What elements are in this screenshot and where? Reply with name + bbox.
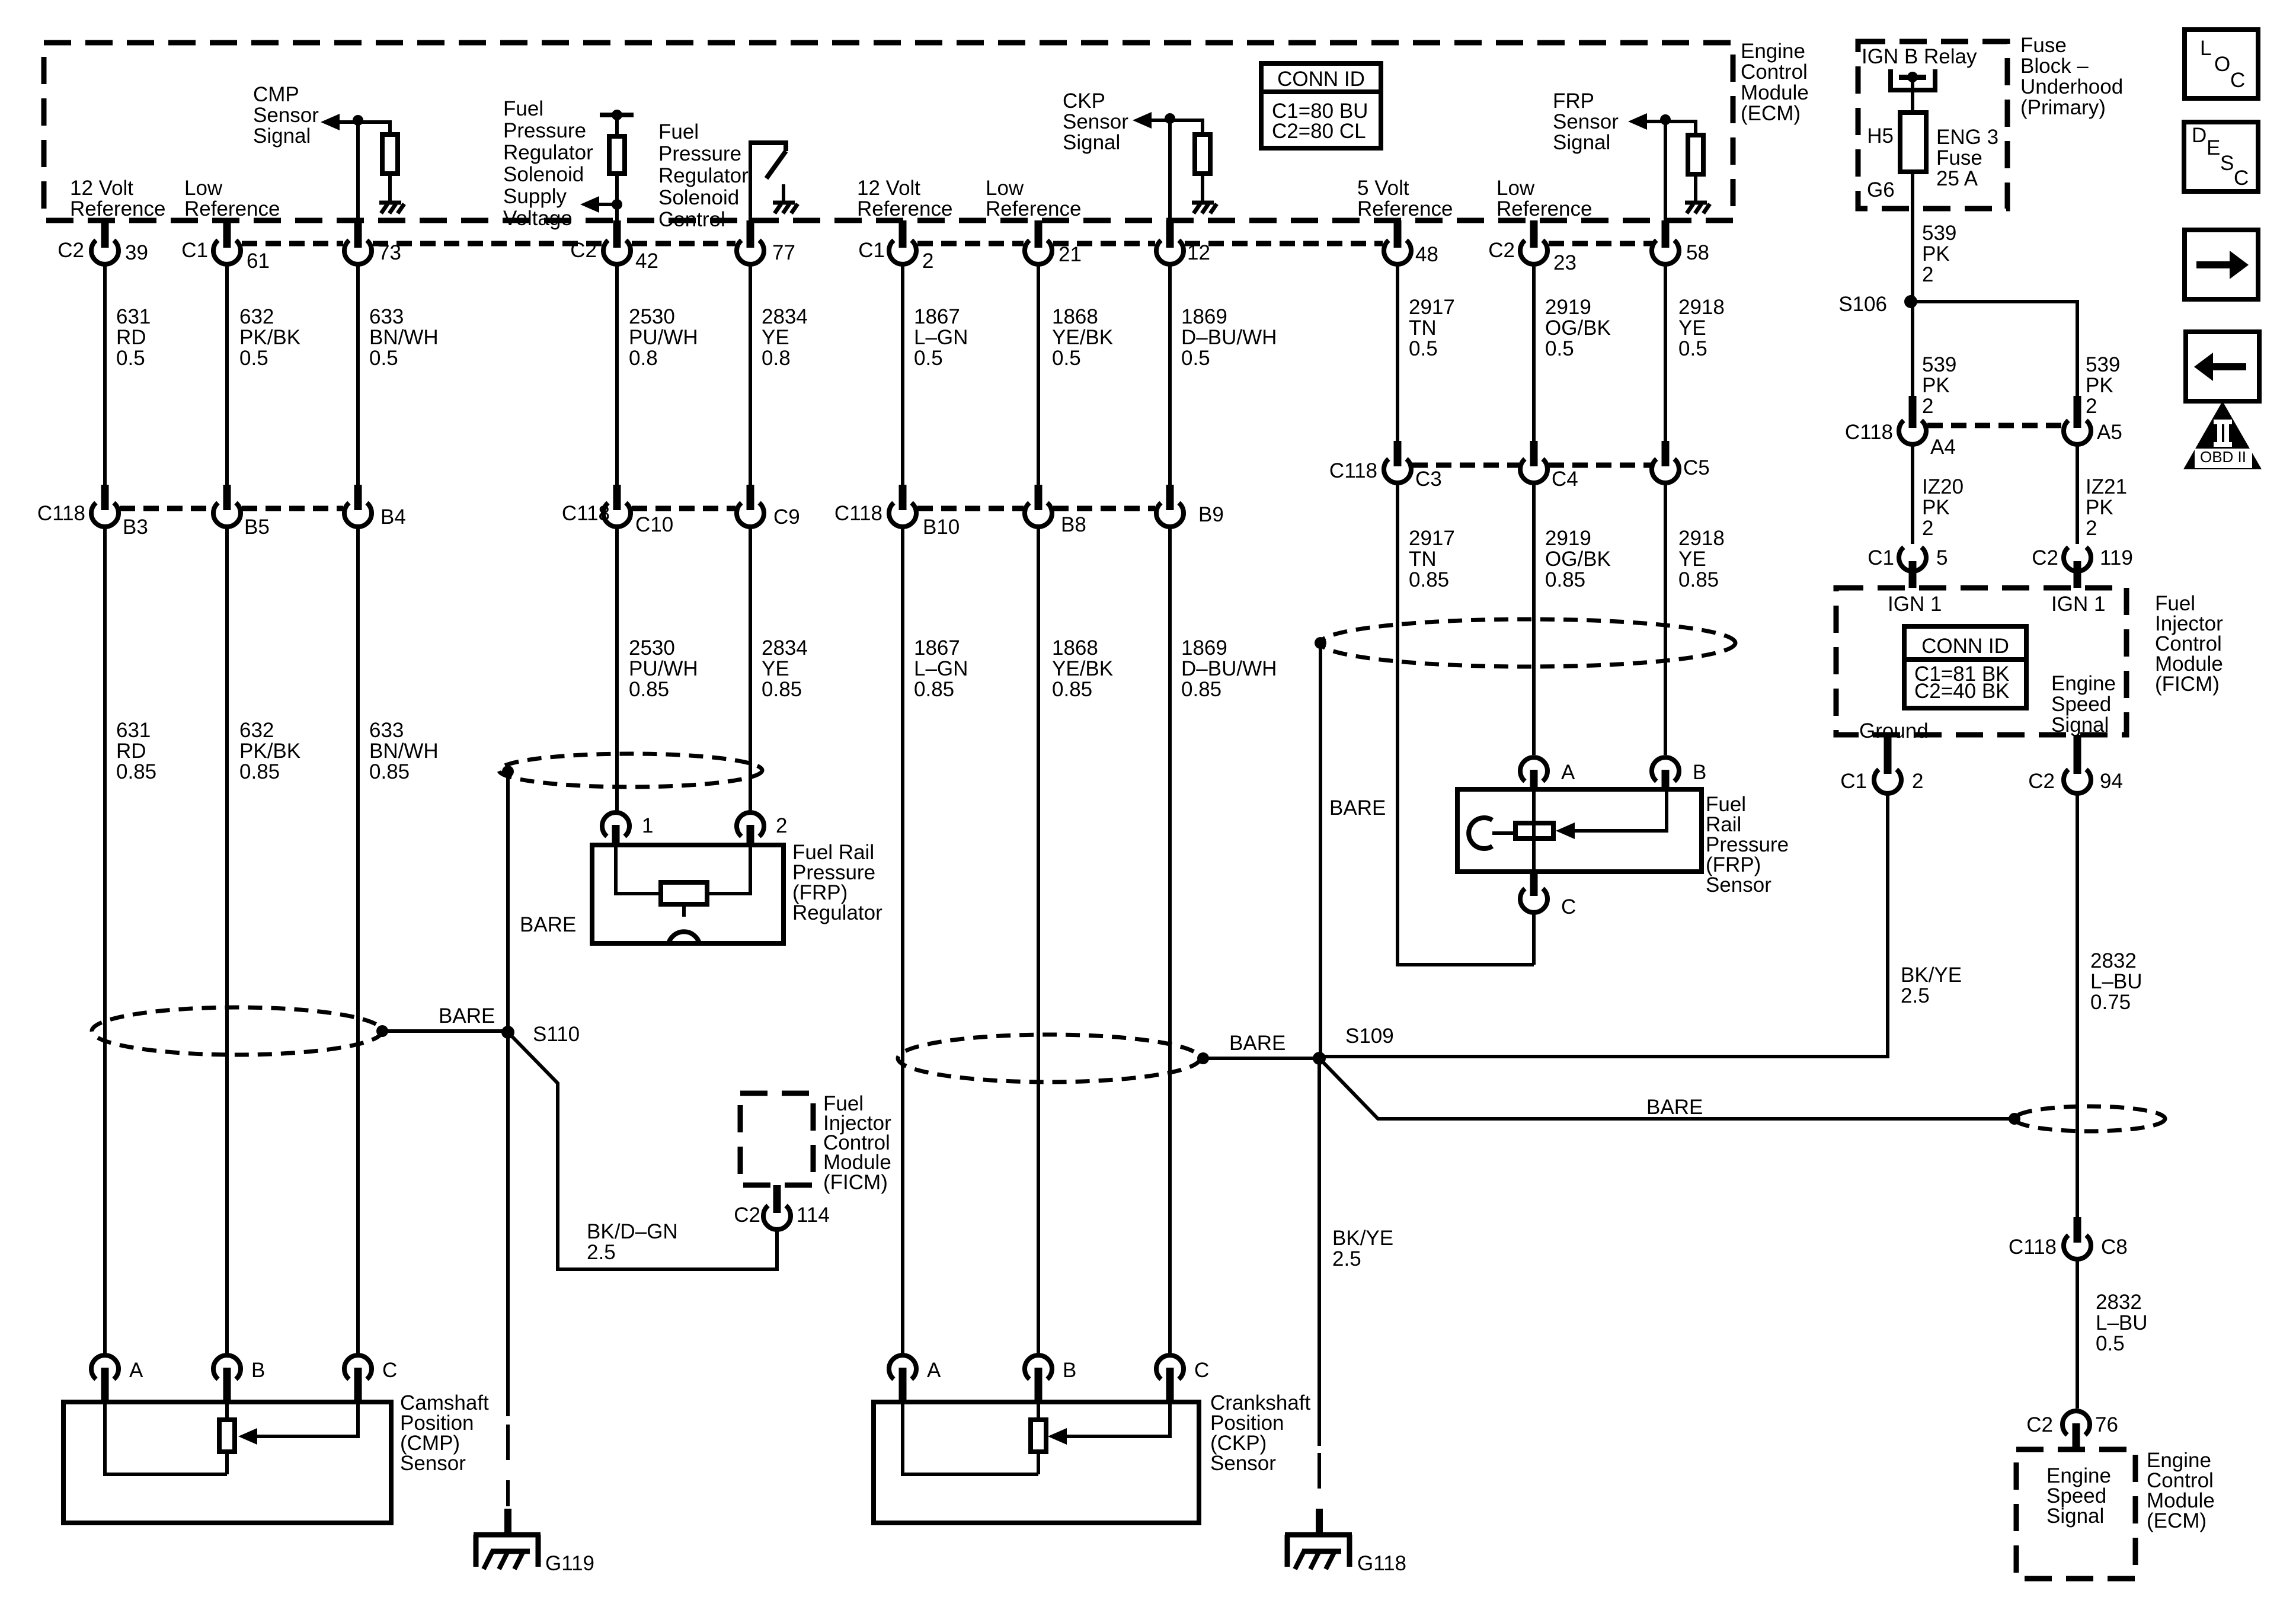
svg-text:CONN ID: CONN ID bbox=[1921, 635, 2009, 658]
svg-text:IGN 1: IGN 1 bbox=[2051, 593, 2105, 616]
svg-text:C118: C118 bbox=[1329, 459, 1377, 482]
svg-text:119: 119 bbox=[2100, 546, 2133, 569]
wire 1869 bbox=[1168, 119, 1172, 485]
svg-text:Low: Low bbox=[1496, 177, 1535, 200]
svg-text:L: L bbox=[2200, 37, 2211, 60]
svg-text:Signal: Signal bbox=[1553, 131, 1610, 154]
svg-text:0.85: 0.85 bbox=[1678, 568, 1719, 591]
svg-text:2918: 2918 bbox=[1678, 527, 1725, 550]
svg-text:0.85: 0.85 bbox=[914, 678, 954, 701]
connector C118 C3 bbox=[1329, 441, 1442, 491]
wire 1868 lower bbox=[1037, 527, 1040, 1355]
svg-text:B10: B10 bbox=[923, 516, 960, 539]
svg-text:2834: 2834 bbox=[762, 636, 808, 660]
svg-text:H5: H5 bbox=[1867, 124, 1894, 148]
svg-text:(FICM): (FICM) bbox=[2155, 673, 2220, 696]
connector C118 C8 bbox=[2009, 1217, 2128, 1259]
wire label 2919 OG/BK 0.85 bbox=[1545, 527, 1611, 591]
svg-text:PK/BK: PK/BK bbox=[239, 326, 300, 349]
wire label 632 PK/BK 0.5 bbox=[239, 305, 300, 370]
node CMP shield drain bbox=[376, 1025, 388, 1037]
svg-text:2530: 2530 bbox=[629, 636, 675, 660]
wire 633 lower bbox=[356, 527, 360, 1355]
svg-text:58: 58 bbox=[1686, 241, 1709, 264]
label BK/YE 2.5 (S109 leg) bbox=[1332, 1227, 1393, 1270]
wire label 2530 PU/WH 0.85 bbox=[629, 636, 698, 701]
label 5 Volt Reference bbox=[1357, 177, 1453, 220]
connector C118 B9 bbox=[1156, 485, 1224, 527]
label 539 PK 2 (upper) bbox=[1922, 222, 1956, 286]
wire regulator pin1 internal bbox=[616, 845, 661, 894]
svg-text:A4: A4 bbox=[1930, 436, 1956, 459]
svg-text:PK: PK bbox=[2086, 374, 2113, 397]
svg-text:YE/BK: YE/BK bbox=[1052, 657, 1113, 680]
svg-text:21: 21 bbox=[1059, 243, 1082, 266]
svg-text:Regulator: Regulator bbox=[658, 164, 749, 187]
svg-text:94: 94 bbox=[2100, 770, 2123, 793]
svg-text:Control: Control bbox=[1741, 60, 1808, 84]
svg-text:Sensor: Sensor bbox=[1210, 1452, 1276, 1475]
CKP internal resistor bbox=[1037, 1402, 1040, 1474]
solenoid coil FRP regulator bbox=[661, 882, 707, 904]
wire FRP sensor A through element bbox=[1532, 789, 1536, 872]
svg-text:YE/BK: YE/BK bbox=[1052, 326, 1113, 349]
svg-text:114: 114 bbox=[797, 1204, 830, 1227]
svg-text:BARE: BARE bbox=[1329, 796, 1386, 820]
wire 2918 upper bbox=[1664, 120, 1667, 441]
svg-text:C: C bbox=[2234, 167, 2249, 190]
wire label 1868 YE/BK 0.85 bbox=[1052, 636, 1113, 701]
label Fuel Rail Pressure (FRP) Sensor bbox=[1706, 793, 1789, 897]
pin 21 bbox=[1025, 220, 1082, 266]
wire S106 down bbox=[1911, 302, 1914, 396]
wire label 632 PK/BK 0.85 bbox=[239, 719, 300, 783]
svg-text:Sensor: Sensor bbox=[1553, 110, 1619, 133]
label Low Reference (CKP) bbox=[986, 177, 1081, 220]
svg-text:BN/WH: BN/WH bbox=[369, 326, 439, 349]
svg-text:2832: 2832 bbox=[2090, 949, 2137, 972]
wire relay to fuse bbox=[1911, 80, 1914, 113]
label 539 PK 2 (left leg) bbox=[1922, 353, 1956, 418]
pin C CMP sensor bbox=[344, 1355, 397, 1403]
connector C118 C5 bbox=[1652, 441, 1710, 483]
svg-text:Solenoid: Solenoid bbox=[658, 186, 739, 209]
label Low Reference (FRP) bbox=[1496, 177, 1592, 220]
svg-text:2: 2 bbox=[1922, 517, 1933, 540]
svg-text:IGN B Relay: IGN B Relay bbox=[1862, 45, 1977, 68]
svg-text:Underhood: Underhood bbox=[2020, 75, 2123, 98]
node FRP shield drain bbox=[1315, 637, 1326, 649]
pin C2-76 ECM bbox=[2026, 1411, 2118, 1451]
svg-text:0.85: 0.85 bbox=[369, 760, 410, 783]
svg-text:RD: RD bbox=[116, 740, 146, 763]
svg-text:C118: C118 bbox=[37, 502, 85, 525]
FRP sensor element bbox=[1515, 823, 1553, 838]
pin 77 bbox=[737, 220, 795, 264]
label 12 Volt Reference (CMP) bbox=[70, 177, 165, 220]
Crankshaft Position (CKP) Sensor box bbox=[874, 1402, 1199, 1523]
CMP internal wire C and arrow bbox=[257, 1402, 358, 1436]
svg-text:0.85: 0.85 bbox=[1545, 568, 1585, 591]
svg-text:0.5: 0.5 bbox=[914, 347, 943, 370]
svg-text:Engine: Engine bbox=[2051, 672, 2116, 695]
shield ellipse 2832 bbox=[2014, 1106, 2165, 1131]
svg-text:48: 48 bbox=[1415, 243, 1438, 266]
svg-text:0.5: 0.5 bbox=[1181, 347, 1210, 370]
svg-text:76: 76 bbox=[2095, 1413, 2118, 1436]
svg-text:RD: RD bbox=[116, 326, 146, 349]
svg-text:IGN 1: IGN 1 bbox=[1888, 593, 1942, 616]
svg-text:23: 23 bbox=[1553, 251, 1576, 274]
wire label 633 BN/WH 0.5 bbox=[369, 305, 439, 370]
fuse ENG 3 25 A bbox=[1900, 113, 1926, 172]
legend right arrow box bbox=[2185, 230, 2258, 299]
shield ellipse FRP wires bbox=[1320, 619, 1735, 667]
svg-text:L–BU: L–BU bbox=[2090, 970, 2142, 993]
wire 2530 to row2 bbox=[615, 264, 619, 485]
wire 2917 lower bbox=[1398, 483, 1534, 965]
svg-text:Fuel: Fuel bbox=[658, 120, 699, 143]
svg-text:Reference: Reference bbox=[857, 197, 952, 220]
svg-text:BK/D–GN: BK/D–GN bbox=[587, 1220, 678, 1243]
wire 2530 lower bbox=[615, 527, 619, 812]
svg-text:Pressure: Pressure bbox=[503, 119, 586, 142]
svg-text:2: 2 bbox=[2086, 395, 2097, 418]
label 539 PK 2 (right leg) bbox=[2086, 353, 2120, 418]
wire label 1867 L-GN 0.5 bbox=[914, 305, 968, 370]
FRP sensor signal arrow bbox=[1628, 113, 1665, 130]
resistor CMP pullup bbox=[382, 135, 398, 174]
regulator bottom port bbox=[682, 904, 686, 917]
svg-text:12 Volt: 12 Volt bbox=[857, 177, 920, 200]
wire label 631 RD 0.5 bbox=[116, 305, 151, 370]
svg-text:Supply: Supply bbox=[503, 185, 567, 208]
pin 1 FRP regulator bbox=[602, 812, 653, 846]
svg-text:Low: Low bbox=[986, 177, 1024, 200]
svg-text:ENG 3: ENG 3 bbox=[1936, 126, 1998, 149]
svg-text:C10: C10 bbox=[635, 513, 673, 536]
svg-text:C9: C9 bbox=[773, 505, 800, 529]
svg-text:2: 2 bbox=[776, 814, 787, 837]
svg-text:FRP: FRP bbox=[1553, 89, 1594, 113]
wire C8 down bbox=[2076, 1259, 2079, 1409]
svg-text:0.85: 0.85 bbox=[762, 678, 802, 701]
svg-text:CKP: CKP bbox=[1063, 89, 1105, 113]
svg-text:Signal: Signal bbox=[2051, 713, 2109, 737]
svg-text:PK/BK: PK/BK bbox=[239, 740, 300, 763]
splice S109 bbox=[1313, 1052, 1326, 1065]
svg-text:Regulator: Regulator bbox=[503, 141, 593, 164]
svg-text:S106: S106 bbox=[1838, 293, 1887, 316]
svg-text:0.85: 0.85 bbox=[116, 760, 156, 783]
label IZ21 PK 2 bbox=[2086, 475, 2127, 540]
label FRP Sensor Signal bbox=[1553, 89, 1619, 154]
svg-text:C4: C4 bbox=[1552, 468, 1578, 491]
svg-text:C1: C1 bbox=[181, 239, 208, 262]
Fuel Rail Pressure (FRP) Regulator box bbox=[592, 845, 784, 943]
pin 48 bbox=[1384, 220, 1438, 266]
wire resistor to ground bbox=[1694, 174, 1697, 201]
wire FRP branch to resistor bbox=[1665, 121, 1696, 135]
pin C CKP sensor bbox=[1156, 1355, 1209, 1403]
C3 row gang line bbox=[1412, 463, 1651, 468]
svg-text:A: A bbox=[927, 1359, 941, 1382]
label BK/YE 2.5 (FICM ground) bbox=[1901, 964, 1962, 1007]
svg-text:Sensor: Sensor bbox=[400, 1452, 466, 1475]
CONN ID box ECM bbox=[1261, 63, 1381, 148]
pin C2-42 bbox=[570, 220, 658, 273]
svg-text:Ground: Ground bbox=[1859, 719, 1929, 742]
svg-text:539: 539 bbox=[1922, 222, 1956, 245]
svg-text:2: 2 bbox=[1922, 263, 1933, 286]
pin C1-2 bbox=[858, 220, 933, 273]
label Low Reference (CMP) bbox=[184, 177, 280, 220]
wire label 2918 YE 0.5 bbox=[1678, 296, 1725, 360]
OBD II symbol bbox=[2183, 401, 2262, 469]
connector C2-119 FICM bbox=[2032, 546, 2133, 588]
svg-text:Sensor: Sensor bbox=[1063, 110, 1128, 133]
label Fuse Block - Underhood (Primary) bbox=[2020, 34, 2123, 119]
svg-text:631: 631 bbox=[116, 719, 151, 742]
label BK/D-GN 2.5 bbox=[587, 1220, 678, 1264]
svg-text:Fuel: Fuel bbox=[503, 97, 543, 120]
wire 2918 lower bbox=[1664, 483, 1667, 755]
svg-text:2530: 2530 bbox=[629, 305, 675, 328]
connector C118 B4 bbox=[344, 485, 406, 529]
wire 2917 upper bbox=[1396, 264, 1399, 441]
svg-text:C118: C118 bbox=[2009, 1235, 2057, 1259]
svg-text:Voltage: Voltage bbox=[503, 207, 573, 230]
svg-text:77: 77 bbox=[772, 241, 795, 264]
wire label 1868 YE/BK 0.5 bbox=[1052, 305, 1113, 370]
svg-text:C2: C2 bbox=[1488, 239, 1515, 262]
svg-text:Signal: Signal bbox=[253, 124, 311, 148]
wire S106 branch right bbox=[1911, 302, 2077, 396]
svg-text:Signal: Signal bbox=[2046, 1505, 2104, 1528]
svg-text:0.5: 0.5 bbox=[369, 347, 398, 370]
wire BK/D-GN S110 to FICM bbox=[508, 1032, 777, 1269]
svg-text:2917: 2917 bbox=[1409, 527, 1455, 550]
svg-text:Reference: Reference bbox=[184, 197, 280, 220]
svg-text:Pressure: Pressure bbox=[658, 142, 741, 165]
svg-text:CMP: CMP bbox=[253, 83, 299, 106]
connector C118 C10 bbox=[562, 485, 673, 536]
wire S109 to FICM ground C1-2 bbox=[1319, 794, 1888, 1057]
svg-text:Reference: Reference bbox=[1357, 197, 1453, 220]
legend left arrow box bbox=[2186, 332, 2259, 401]
svg-text:Fuse: Fuse bbox=[2020, 34, 2067, 57]
svg-text:0.8: 0.8 bbox=[629, 347, 658, 370]
svg-text:C3: C3 bbox=[1415, 468, 1442, 491]
svg-text:OBD II: OBD II bbox=[2200, 448, 2246, 466]
wire label 2834 YE 0.85 bbox=[762, 636, 808, 701]
svg-text:2.5: 2.5 bbox=[587, 1241, 616, 1264]
svg-text:0.5: 0.5 bbox=[2096, 1332, 2125, 1355]
svg-text:12 Volt: 12 Volt bbox=[70, 177, 133, 200]
svg-text:C5: C5 bbox=[1683, 456, 1710, 479]
svg-text:39: 39 bbox=[125, 241, 148, 264]
label Fuel Rail Pressure (FRP) Regulator bbox=[792, 841, 882, 924]
svg-text:OG/BK: OG/BK bbox=[1545, 316, 1611, 340]
svg-text:C2: C2 bbox=[2028, 770, 2055, 793]
label 12 Volt Reference (CKP) bbox=[857, 177, 952, 220]
node junction on wire 633 bbox=[353, 115, 363, 126]
wire fuse to S106 bbox=[1911, 172, 1914, 302]
svg-text:633: 633 bbox=[369, 719, 404, 742]
CONN ID box FICM bbox=[1904, 626, 2026, 708]
label Camshaft Position (CMP) Sensor bbox=[400, 1391, 489, 1475]
svg-text:(ECM): (ECM) bbox=[1741, 102, 1801, 125]
svg-text:C118: C118 bbox=[834, 502, 882, 525]
connector C2-114 FICM bbox=[734, 1185, 830, 1230]
label Fuel Pressure Regulator Solenoid Supply Voltage bbox=[503, 97, 593, 230]
node FPR supply arrow bbox=[612, 199, 622, 210]
FRP sensor pressure port symbol bbox=[1469, 818, 1492, 849]
svg-text:L–GN: L–GN bbox=[914, 326, 968, 349]
svg-text:1868: 1868 bbox=[1052, 636, 1098, 660]
svg-text:0.5: 0.5 bbox=[1052, 347, 1081, 370]
svg-text:2917: 2917 bbox=[1409, 296, 1455, 319]
svg-text:BARE: BARE bbox=[1229, 1032, 1285, 1055]
FPR supply crossbar and node bbox=[600, 113, 634, 117]
CKP internal wire C and arrow bbox=[1067, 1402, 1170, 1436]
svg-text:73: 73 bbox=[378, 241, 401, 264]
pin C2-23 bbox=[1488, 220, 1576, 274]
svg-text:L–BU: L–BU bbox=[2096, 1311, 2148, 1334]
svg-text:C: C bbox=[2230, 69, 2245, 92]
connector C118 B3 bbox=[37, 485, 148, 539]
pin C1-61 bbox=[181, 220, 270, 273]
svg-text:C2: C2 bbox=[57, 239, 84, 262]
svg-text:O: O bbox=[2214, 53, 2230, 76]
svg-text:C118: C118 bbox=[562, 502, 610, 525]
ground G118 bbox=[1285, 1535, 1352, 1569]
Engine Control Module (ECM) box bottom bbox=[2016, 1449, 2135, 1579]
svg-text:S110: S110 bbox=[533, 1023, 580, 1046]
wire label 633 BN/WH 0.85 bbox=[369, 719, 439, 783]
svg-text:G119: G119 bbox=[545, 1552, 594, 1575]
svg-text:0.5: 0.5 bbox=[1409, 337, 1438, 360]
wire 631 lower bbox=[103, 527, 107, 1355]
svg-text:12: 12 bbox=[1187, 241, 1210, 264]
node junction on wire 2918 bbox=[1660, 114, 1671, 125]
svg-text:0.5: 0.5 bbox=[1545, 337, 1574, 360]
svg-text:C2: C2 bbox=[2026, 1413, 2053, 1436]
svg-text:BK/YE: BK/YE bbox=[1332, 1227, 1393, 1250]
wire CKP branch to resistor bbox=[1170, 120, 1203, 135]
wire 632 top segment bbox=[225, 264, 229, 485]
svg-text:(FICM): (FICM) bbox=[823, 1171, 888, 1194]
FPR supply voltage arrow bbox=[580, 196, 617, 213]
svg-text:TN: TN bbox=[1409, 316, 1437, 340]
svg-text:C2=40 BK: C2=40 BK bbox=[1914, 680, 2010, 703]
svg-text:2919: 2919 bbox=[1545, 527, 1591, 550]
svg-text:YE: YE bbox=[1678, 316, 1706, 340]
svg-text:1867: 1867 bbox=[914, 305, 960, 328]
svg-text:Reference: Reference bbox=[986, 197, 1081, 220]
svg-text:C8: C8 bbox=[2101, 1235, 2128, 1259]
svg-text:C2: C2 bbox=[2032, 546, 2058, 569]
Engine Control Module (ECM) box bbox=[44, 43, 1733, 220]
pin 2 FRP regulator bbox=[737, 812, 787, 846]
connector C118 B8 bbox=[1025, 485, 1086, 536]
svg-text:Signal: Signal bbox=[1063, 131, 1120, 154]
svg-text:0.85: 0.85 bbox=[1409, 568, 1449, 591]
wire BARE CMP drain to S110 bbox=[382, 1029, 508, 1033]
wire label 2918 YE 0.85 bbox=[1678, 527, 1725, 591]
svg-text:BK/YE: BK/YE bbox=[1901, 964, 1962, 987]
svg-text:1869: 1869 bbox=[1181, 636, 1227, 660]
Fuel Rail Pressure (FRP) Sensor box bbox=[1457, 789, 1702, 872]
svg-text:2918: 2918 bbox=[1678, 296, 1725, 319]
wire label 631 RD 0.85 bbox=[116, 719, 156, 783]
Camshaft Position (CMP) Sensor box bbox=[63, 1402, 391, 1523]
ECM pin row gang line bbox=[242, 241, 1652, 247]
relay output cavity bbox=[1891, 69, 1935, 90]
svg-text:C2: C2 bbox=[570, 239, 597, 262]
wire resistor to ground bbox=[388, 174, 392, 201]
splice S110 bbox=[501, 1026, 514, 1039]
connector C118 C4 bbox=[1520, 441, 1578, 491]
svg-text:C2: C2 bbox=[734, 1204, 760, 1227]
wire FRP sensor C down bbox=[1532, 913, 1536, 965]
label CKP Sensor Signal bbox=[1063, 89, 1128, 154]
wire label 2917 TN 0.5 bbox=[1409, 296, 1455, 360]
pin C FRP sensor bbox=[1520, 872, 1576, 918]
connector C1-2 FICM ground bbox=[1840, 735, 1923, 793]
svg-text:CONN ID: CONN ID bbox=[1277, 68, 1365, 91]
svg-text:A: A bbox=[129, 1359, 143, 1382]
svg-text:Sensor: Sensor bbox=[1706, 873, 1771, 897]
svg-text:Engine: Engine bbox=[1741, 40, 1805, 63]
CMP internal resistor bbox=[225, 1402, 229, 1474]
CMP internal wire A bbox=[105, 1402, 227, 1474]
svg-text:L–GN: L–GN bbox=[914, 657, 968, 680]
wire BARE FRP drain to S109 bbox=[1319, 643, 1322, 1058]
wire 633 segment bbox=[356, 120, 360, 485]
svg-text:Low: Low bbox=[184, 177, 223, 200]
wire S109 to G118 bbox=[1318, 1058, 1321, 1446]
connector C1-5 FICM bbox=[1868, 546, 1948, 588]
svg-text:PU/WH: PU/WH bbox=[629, 326, 698, 349]
svg-text:0.8: 0.8 bbox=[762, 347, 791, 370]
pin B CMP sensor bbox=[213, 1355, 265, 1403]
ground FRP internal bbox=[1685, 203, 1710, 213]
pin C2-39 bbox=[57, 220, 148, 264]
wire resistor to ground bbox=[1201, 174, 1204, 201]
shield ellipse FPR wires bbox=[499, 754, 762, 787]
svg-text:0.5: 0.5 bbox=[116, 347, 145, 370]
svg-text:1869: 1869 bbox=[1181, 305, 1227, 328]
label Fuel Injector Control Module (FICM) bbox=[823, 1092, 891, 1194]
svg-text:2: 2 bbox=[2086, 517, 2097, 540]
svg-text:25 A: 25 A bbox=[1936, 167, 1978, 190]
svg-text:2832: 2832 bbox=[2096, 1291, 2142, 1314]
wire label 2834 YE 0.8 bbox=[762, 305, 808, 370]
svg-text:G118: G118 bbox=[1357, 1552, 1406, 1575]
splice S106 bbox=[1904, 295, 1917, 308]
pin A CMP sensor bbox=[91, 1355, 143, 1403]
svg-text:E: E bbox=[2207, 136, 2220, 159]
ground CMP internal bbox=[379, 203, 404, 213]
node junction on wire 1869 bbox=[1165, 113, 1175, 124]
svg-text:IZ20: IZ20 bbox=[1922, 475, 1964, 498]
svg-text:PK: PK bbox=[1922, 496, 1950, 519]
A4 row gang line bbox=[1927, 423, 2062, 428]
svg-text:0.5: 0.5 bbox=[1678, 337, 1707, 360]
svg-text:YE: YE bbox=[762, 326, 789, 349]
FPR solenoid control driver switch bbox=[750, 143, 798, 213]
